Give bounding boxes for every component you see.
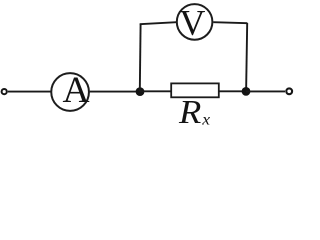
svg-text:V: V <box>179 3 205 43</box>
terminal T2 (right open circle) <box>286 88 292 94</box>
wire node N2 to terminal T2 <box>246 90 285 92</box>
wire resistor to node N2 <box>220 90 247 92</box>
svg-text:R: R <box>178 94 201 128</box>
resistor Rx (box) <box>171 83 219 97</box>
voltmeter V (circle) <box>177 4 213 40</box>
ammeter A (circle) <box>51 73 89 111</box>
svg-text:A: A <box>62 70 89 111</box>
wire T1 to ammeter <box>8 91 51 93</box>
terminal T1 (left open circle) <box>2 89 7 94</box>
wire top left to voltmeter <box>140 22 177 24</box>
node N1 (junction dot) <box>136 87 145 96</box>
wire ammeter to node N1 <box>90 91 140 93</box>
wire vertical left branch (N1 up) <box>139 24 142 92</box>
svg-text:x: x <box>201 112 210 129</box>
wire voltmeter to top right corner <box>213 22 247 23</box>
wire vertical right branch (down to N2) <box>246 23 247 91</box>
node N2 (junction dot) <box>242 87 251 96</box>
wire node N1 to resistor <box>140 90 171 92</box>
